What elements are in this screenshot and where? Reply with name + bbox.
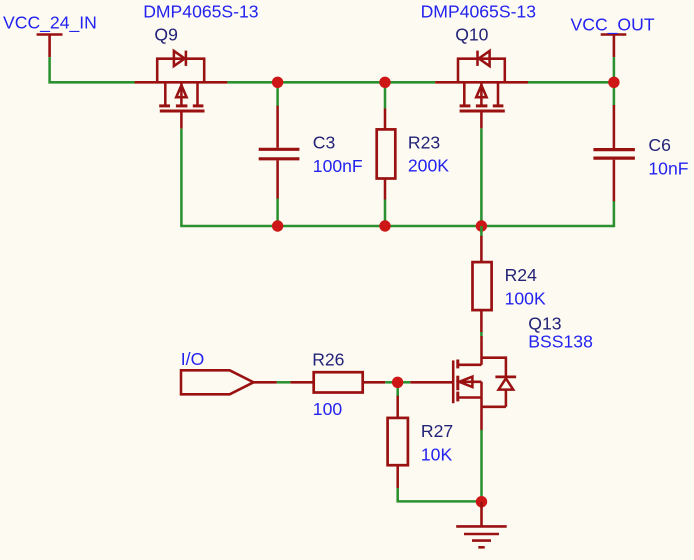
svg-text:100: 100 (313, 399, 343, 419)
resistor R27 (388, 382, 408, 500)
wire Q13 source down to ground node (480, 430, 483, 502)
junction dot bottom rail at R23 (379, 220, 390, 231)
svg-text:10K: 10K (421, 445, 453, 465)
svg-text:R27: R27 (421, 421, 453, 441)
junction dot top rail at C3 (272, 77, 283, 88)
svg-text:DMP4065S-13: DMP4065S-13 (421, 2, 537, 22)
svg-text:DMP4065S-13: DMP4065S-13 (143, 1, 259, 21)
svg-text:Q13: Q13 (528, 314, 561, 334)
svg-text:Q9: Q9 (154, 25, 177, 45)
svg-text:C3: C3 (313, 133, 336, 153)
transistor Q9 (135, 51, 228, 129)
supply symbol VCC_24_IN (37, 35, 63, 58)
ground (456, 502, 507, 548)
junction dot I/O node (392, 377, 403, 388)
supply symbol VCC_OUT (601, 35, 627, 58)
svg-text:200K: 200K (408, 156, 449, 176)
svg-text:R26: R26 (312, 350, 344, 370)
svg-text:I/O: I/O (181, 349, 204, 369)
wire Q10 gate down to bottom rail (480, 128, 483, 226)
wire I/O to R26 (254, 381, 277, 384)
resistor R24 (473, 226, 492, 337)
junction dot bottom rail at C3 (272, 220, 283, 231)
junction dot top rail at R23 (379, 77, 390, 88)
resistor R23 (377, 82, 396, 226)
capacitor C3 (259, 82, 300, 226)
svg-text:Q10: Q10 (455, 24, 488, 44)
junction dot at VCC_OUT node (608, 77, 619, 88)
svg-text:100nF: 100nF (313, 156, 363, 176)
transistor Q13 (410, 336, 516, 431)
capacitor C6 (593, 82, 635, 227)
resistor R26 (314, 372, 411, 392)
junction dot ground node (476, 496, 487, 507)
junction dot bottom rail at R24 (476, 220, 487, 231)
wire R27 bottom to ground node (398, 500, 482, 502)
wire VCC_24_IN to Q9 (50, 57, 136, 82)
svg-text:10nF: 10nF (648, 159, 688, 179)
svg-text:R24: R24 (505, 265, 537, 285)
wire Q9 gate down to bottom rail (180, 129, 183, 226)
svg-text:C6: C6 (648, 135, 671, 155)
transistor Q10 (435, 51, 528, 129)
pin I/O (181, 370, 254, 394)
svg-text:100K: 100K (505, 288, 546, 308)
wire top rail Q9 to Q10 (227, 81, 435, 84)
wire VCC_OUT stem (613, 57, 616, 82)
svg-text:VCC_OUT: VCC_OUT (571, 14, 655, 35)
svg-text:BSS138: BSS138 (528, 332, 593, 352)
wire bottom rail (180, 225, 614, 228)
svg-text:R23: R23 (408, 133, 440, 153)
svg-text:VCC_24_IN: VCC_24_IN (3, 13, 97, 34)
wire top rail Q10 to VCC_OUT node (528, 81, 614, 84)
